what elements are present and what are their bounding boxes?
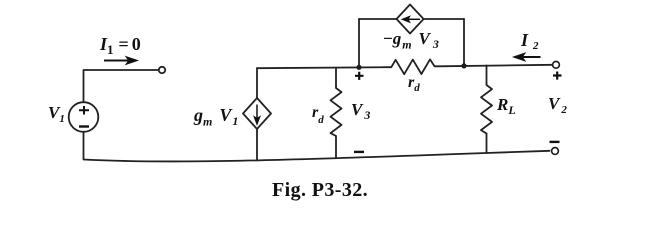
wire loop right vertical (463, 19, 465, 66)
node junction dot right (461, 63, 466, 68)
arrow I1 (right) (104, 57, 138, 65)
voltage source V1 (69, 102, 99, 132)
wire loop top left (359, 18, 397, 20)
V1 minus sign (79, 125, 89, 127)
wire RL top (486, 66, 488, 84)
wire V1 top to open terminal (84, 70, 159, 102)
svg-text:I2: I2 (520, 30, 539, 52)
node I1 open terminal (159, 67, 165, 73)
svg-text:V2: V2 (548, 94, 567, 116)
label V3 plus (355, 72, 364, 80)
node output terminal top (553, 61, 560, 68)
label V3 minus (354, 151, 364, 153)
resistor RL zigzag (481, 83, 492, 134)
label V2 plus (553, 72, 562, 80)
dependent source -gmV3 diamond (397, 5, 424, 34)
wire gmV1 bottom (256, 129, 258, 160)
wire gmV1 top (256, 68, 258, 98)
arrow gmV1 (down) (254, 105, 260, 125)
wire rd vertical top (335, 68, 337, 86)
svg-text:V3: V3 (351, 100, 370, 122)
wire loop top right (424, 18, 464, 20)
svg-text:rd: rd (312, 104, 324, 126)
node output terminal bottom (552, 148, 559, 155)
wire rd vertical bottom (335, 136, 337, 157)
V1 plus sign (79, 106, 89, 115)
wire loop left vertical (358, 19, 360, 67)
svg-text:Fig. P3-32.: Fig. P3-32. (272, 179, 368, 201)
svg-text:gmV1: gmV1 (193, 105, 238, 129)
svg-text:RL: RL (496, 95, 516, 117)
arrow -gmV3 (left) (402, 16, 420, 22)
wire V1 bottom (83, 132, 85, 159)
wire mid rail left (257, 67, 387, 68)
svg-text:I1=0: I1=0 (99, 34, 141, 57)
label V2 minus (550, 141, 560, 143)
resistor rd vertical zigzag (331, 86, 342, 136)
wire mid rail right (439, 65, 553, 67)
svg-text:rd: rd (408, 74, 420, 94)
wire bottom rail (84, 151, 550, 162)
resistor rd horizontal zigzag (387, 59, 439, 74)
arrow I2 (left) (514, 53, 541, 61)
svg-text:V1: V1 (48, 103, 65, 125)
wire RL bottom (486, 134, 488, 154)
node junction dot left (356, 65, 361, 70)
dependent source gmV1 diamond (243, 98, 271, 129)
